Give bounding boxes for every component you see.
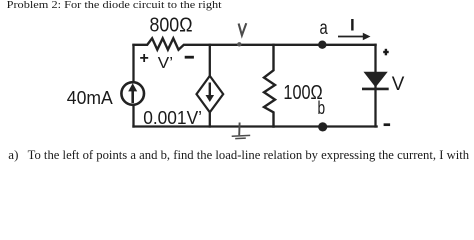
svg-text:0.001V’: 0.001V’: [143, 108, 202, 128]
svg-text:+: +: [140, 50, 149, 67]
svg-text:40mA: 40mA: [67, 87, 114, 108]
svg-text:V: V: [392, 73, 405, 95]
svg-text:b: b: [318, 97, 326, 118]
svg-text:To the left of points a and b,: To the left of points a and b, find the …: [28, 147, 470, 162]
svg-text:Problem 2: For the diode circu: Problem 2: For the diode circuit to the …: [7, 0, 222, 11]
svg-text:a): a): [8, 147, 18, 162]
svg-text:I: I: [350, 15, 355, 34]
svg-text:800Ω: 800Ω: [150, 14, 193, 37]
svg-text:V’: V’: [158, 55, 173, 72]
svg-text:a: a: [320, 18, 329, 39]
